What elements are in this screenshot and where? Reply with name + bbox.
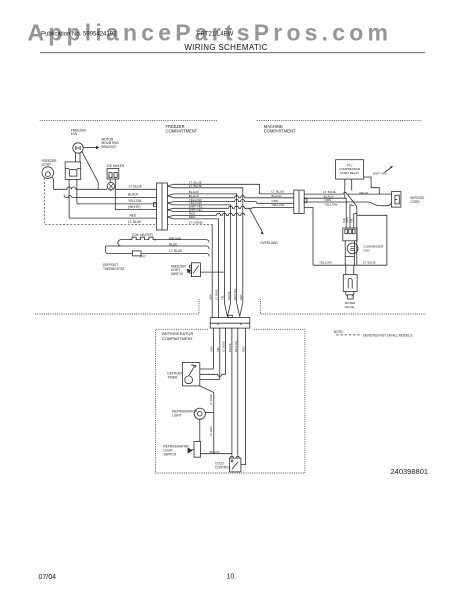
wire L10 red down bbox=[173, 219, 218, 299]
svg-text:THERMOSTAT: THERMOSTAT bbox=[103, 267, 125, 271]
freezer fan motor bbox=[73, 143, 83, 153]
compressor feed wires bbox=[346, 198, 357, 228]
wire L8 wht-yel down bbox=[173, 212, 224, 299]
svg-text:TIMER: TIMER bbox=[167, 375, 178, 379]
ice maker plug bbox=[110, 179, 115, 182]
wire L4 black to machine bbox=[173, 196, 293, 198]
refrigerator light switch bbox=[194, 442, 201, 458]
svg-text:YELLOW: YELLOW bbox=[324, 202, 337, 206]
light to switch wire bbox=[199, 419, 201, 441]
svg-text:LT. BLUE: LT. BLUE bbox=[222, 341, 226, 352]
svg-text:SPST: SPST bbox=[140, 254, 147, 258]
cell heater element bbox=[106, 237, 207, 253]
freezer light bulb bbox=[42, 167, 54, 179]
bottom bus bbox=[313, 264, 387, 266]
svg-text:FAN: FAN bbox=[364, 248, 370, 252]
cold control terminals bbox=[230, 456, 239, 458]
timer output diagonal bbox=[200, 386, 214, 454]
heater wires hook to verticals bbox=[206, 240, 209, 249]
svg-text:Publication No. 5995424192: Publication No. 5995424192 bbox=[41, 31, 117, 37]
refrigerator compartment border bbox=[156, 329, 305, 473]
wht-yel wire from relay bbox=[364, 177, 380, 194]
fan-to-icemaker diagonal wire bbox=[82, 151, 98, 189]
svg-text:RED: RED bbox=[242, 346, 246, 352]
water valve bbox=[343, 275, 357, 292]
svg-text:CORD: CORD bbox=[410, 200, 420, 204]
freezer fan leads bbox=[76, 153, 81, 162]
svg-text:FAN: FAN bbox=[71, 132, 78, 136]
svg-text:LT. GRND: LT. GRND bbox=[189, 221, 204, 225]
svg-text:SWITCH: SWITCH bbox=[164, 452, 177, 456]
svg-text:BRACKET: BRACKET bbox=[102, 145, 117, 149]
svg-text:BLACK: BLACK bbox=[227, 291, 231, 300]
svg-text:ORN: ORN bbox=[210, 346, 214, 352]
freezer light switch bbox=[191, 263, 200, 277]
red feed from fan box bbox=[68, 179, 70, 218]
service cord plug bbox=[391, 192, 401, 208]
svg-text:VALVE: VALVE bbox=[345, 305, 355, 309]
wire L2 lt.blue down bbox=[173, 188, 242, 299]
wire L3 black down bbox=[173, 194, 236, 299]
wire lt.blue 1 (light to connector) bbox=[54, 187, 157, 189]
svg-text:YELLOW: YELLOW bbox=[319, 260, 332, 264]
bracket arrow bbox=[84, 147, 97, 149]
svg-text:NOTE:: NOTE: bbox=[334, 330, 344, 334]
svg-text:START RELAY: START RELAY bbox=[340, 171, 359, 175]
svg-text:LT. BLUE: LT. BLUE bbox=[209, 394, 213, 405]
svg-text:LT. BLUE: LT. BLUE bbox=[169, 249, 182, 253]
svg-text:DENOTES NOT ON ALL MODELS.: DENOTES NOT ON ALL MODELS. bbox=[363, 333, 413, 337]
svg-text:RED: RED bbox=[189, 215, 196, 219]
svg-text:LT. BLUE: LT. BLUE bbox=[215, 289, 219, 300]
header rule bbox=[40, 52, 425, 54]
light wire to lt.blue bbox=[52, 177, 54, 189]
svg-text:BLACK: BLACK bbox=[128, 193, 139, 197]
refrigerator light bulb bbox=[194, 408, 205, 419]
water valve connector bbox=[346, 291, 354, 296]
wire yellow to connector bbox=[77, 203, 157, 205]
defrost timer bbox=[182, 363, 199, 386]
svg-text:07/04: 07/04 bbox=[39, 574, 57, 581]
svg-text:BROWN: BROWN bbox=[169, 237, 182, 241]
svg-text:10: 10 bbox=[227, 574, 235, 581]
svg-text:YEL: YEL bbox=[216, 347, 220, 352]
light tap wire bbox=[205, 411, 213, 413]
wire L7 wht-yel to machine bbox=[173, 206, 293, 208]
freezer compartment top border bbox=[40, 120, 422, 122]
start switch diagonal bbox=[347, 194, 356, 206]
timer wires bbox=[200, 369, 226, 379]
svg-text:YELLOW: YELLOW bbox=[128, 199, 141, 203]
wires below connector bbox=[214, 328, 226, 379]
svg-text:RED: RED bbox=[239, 294, 243, 300]
wire L1 lt.blue bbox=[173, 184, 293, 194]
svg-text:LT. BLUE: LT. BLUE bbox=[128, 220, 141, 224]
svg-text:240398801: 240398801 bbox=[391, 467, 429, 476]
svg-text:BLK: BLK bbox=[342, 218, 346, 223]
fan junction box bbox=[65, 162, 81, 180]
svg-text:ORN: ORN bbox=[346, 217, 350, 223]
icemaker left lead to wire bbox=[110, 189, 112, 192]
svg-text:LT. BLUE: LT. BLUE bbox=[363, 260, 376, 264]
svg-text:LIGHT: LIGHT bbox=[42, 162, 51, 166]
wire L6 yellow down bbox=[173, 205, 230, 299]
wire D yellow down bbox=[304, 207, 313, 265]
overload leader arrow bbox=[249, 208, 262, 232]
svg-text:LT. BLUE: LT. BLUE bbox=[271, 190, 284, 194]
svg-text:WHT-YEL: WHT-YEL bbox=[233, 288, 237, 300]
run loop bbox=[357, 207, 387, 266]
wire L5 yellow to machine bbox=[173, 200, 293, 204]
svg-text:COMPARTMENT: COMPARTMENT bbox=[162, 336, 194, 341]
cold control bbox=[230, 458, 241, 472]
svg-text:ORN: ORN bbox=[208, 294, 212, 300]
connector fan-out splits bbox=[167, 184, 173, 219]
compressor terminal block bbox=[343, 228, 357, 241]
svg-text:BLACK: BLACK bbox=[210, 450, 221, 454]
defrost thermostat symbol bbox=[133, 251, 142, 256]
freezer main connector bbox=[157, 183, 168, 230]
wire L9 red bbox=[173, 213, 244, 215]
yellow feed from fan box bbox=[76, 179, 78, 204]
svg-text:ICE MAKER: ICE MAKER bbox=[107, 164, 125, 168]
svg-text:COMPARTMENT: COMPARTMENT bbox=[166, 128, 198, 133]
svg-text:LT. RED: LT. RED bbox=[209, 426, 213, 436]
svg-text:COIL HEATER: COIL HEATER bbox=[132, 233, 154, 237]
freezer/machine bottom border with notch bbox=[35, 299, 426, 314]
wire B black bbox=[304, 197, 346, 199]
svg-text:LT. BLUE: LT. BLUE bbox=[129, 185, 142, 189]
wire white from icemaker to connector bbox=[115, 182, 156, 209]
svg-text:BLUE: BLUE bbox=[169, 242, 177, 246]
svg-text:(WHITE): (WHITE) bbox=[128, 205, 140, 209]
svg-text:BLACK: BLACK bbox=[228, 343, 232, 352]
light left wire down (lt. blue bottom) bbox=[45, 178, 157, 224]
wht-yel leader arrow bbox=[385, 167, 392, 173]
svg-text:FRT21IL4BW: FRT21IL4BW bbox=[197, 31, 234, 37]
wire black to connector bbox=[64, 195, 157, 198]
water valve stubs bbox=[346, 265, 354, 274]
svg-text:RED: RED bbox=[130, 213, 137, 217]
svg-text:SWITCH: SWITCH bbox=[171, 272, 184, 276]
defrost thermostat wire bbox=[109, 253, 210, 256]
ice maker head bbox=[107, 169, 119, 179]
svg-text:RELAY: RELAY bbox=[360, 191, 369, 195]
relay stubs bbox=[345, 179, 352, 198]
wire red to connector bbox=[69, 217, 156, 219]
svg-text:WHT-YEL: WHT-YEL bbox=[234, 340, 238, 352]
svg-text:OVERLOAD: OVERLOAD bbox=[260, 241, 278, 245]
svg-text:BLACK: BLACK bbox=[271, 194, 282, 198]
machine connector bbox=[294, 190, 304, 213]
condenser fan motor bbox=[345, 241, 354, 265]
svg-text:YEL: YEL bbox=[350, 218, 354, 223]
svg-text:COMPARTMENT: COMPARTMENT bbox=[264, 128, 296, 133]
svg-text:YELLOW: YELLOW bbox=[271, 203, 284, 207]
svg-text:LT. BLUE: LT. BLUE bbox=[189, 184, 202, 188]
svg-text:LIGHT: LIGHT bbox=[172, 413, 181, 417]
refrigerator connector bbox=[210, 318, 250, 329]
wire L11 lt.grn gray bbox=[167, 223, 212, 225]
wire bundle into connector with crossovers bbox=[212, 299, 218, 318]
wire C orn to plug bbox=[304, 202, 392, 206]
svg-text:CONTROL: CONTROL bbox=[215, 465, 231, 469]
wire A to service cord bbox=[304, 192, 392, 194]
relay box bbox=[336, 160, 364, 179]
svg-text:WIRING SCHEMATIC: WIRING SCHEMATIC bbox=[184, 43, 267, 52]
switch wire to vertical bbox=[200, 271, 224, 273]
